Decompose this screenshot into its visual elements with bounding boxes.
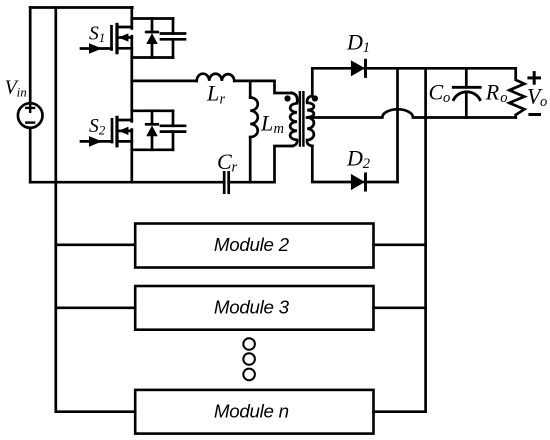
svg-text:Module n: Module n: [214, 401, 289, 422]
svg-text:S: S: [89, 116, 99, 137]
wire half-bridge bus low segment: [130, 130, 133, 183]
wire module3 right lead: [374, 306, 426, 309]
svg-text:o: o: [443, 90, 450, 106]
wire center tap with hop: [307, 109, 516, 117]
svg-text:L: L: [260, 111, 273, 136]
wire top rail: [30, 6, 132, 9]
transformer secondary winding: [307, 96, 314, 146]
S2 snubber box: [132, 111, 185, 150]
wire half-bridge bus mid segment: [130, 36, 133, 121]
wire secondary top lead: [312, 68, 351, 96]
transistor Q1 (switch S1): [81, 24, 132, 53]
svg-text:r: r: [220, 91, 226, 107]
wire module3 left lead: [56, 306, 135, 309]
svg-text:2: 2: [363, 156, 370, 172]
svg-text:in: in: [17, 85, 27, 100]
capacitor Co: [453, 68, 480, 117]
svg-text:r: r: [232, 160, 238, 176]
wire half-bridge bus drain segment: [130, 8, 133, 29]
svg-text:D: D: [346, 29, 363, 54]
module n box: [135, 390, 373, 434]
wire secondary bottom lead: [312, 146, 351, 182]
wire Vin top lead: [29, 8, 32, 104]
svg-text:D: D: [346, 145, 363, 170]
inductor Lm: [250, 81, 258, 182]
wire output top rail: [365, 67, 516, 70]
capacitor C-S2: [172, 111, 175, 126]
inductor Lr: [197, 74, 235, 81]
capacitor C-S1: [172, 19, 175, 34]
capacitor Cr: [223, 172, 226, 192]
transistor Q2 (switch S2): [81, 117, 132, 146]
module 3 box: [135, 286, 373, 330]
svg-text:R: R: [485, 80, 500, 105]
svg-text:C: C: [217, 149, 232, 174]
output plus sign: [529, 73, 540, 84]
wire module-n right lead: [374, 410, 426, 413]
svg-text:o: o: [500, 90, 507, 106]
svg-text:Module 3: Module 3: [214, 297, 290, 318]
diode D2: [351, 174, 365, 190]
wire left module bus: [54, 8, 57, 412]
svg-text:o: o: [540, 94, 547, 110]
source Vin: [18, 103, 43, 128]
module 2 box: [135, 224, 373, 268]
svg-text:1: 1: [363, 40, 370, 56]
transformer primary winding: [290, 93, 297, 146]
svg-text:1: 1: [99, 30, 106, 45]
wire right module bus: [424, 68, 427, 411]
wire Vin bottom lead: [29, 128, 32, 182]
svg-text:C: C: [429, 80, 444, 105]
svg-text:Module 2: Module 2: [214, 234, 290, 255]
wire module2 right lead: [374, 243, 426, 246]
wire D2 to cathode bus: [365, 181, 398, 184]
wire module-n left lead: [56, 410, 135, 413]
diode body D-S2: [151, 111, 154, 125]
wire module2 left lead: [56, 243, 135, 246]
wire midpoint to Lr: [132, 80, 197, 83]
node secondary dot: [312, 95, 318, 101]
S1 snubber box: [132, 19, 185, 58]
svg-text:S: S: [89, 24, 99, 45]
svg-text:L: L: [206, 81, 219, 106]
diode body D-S1: [151, 19, 154, 33]
wire Lr to primary: [234, 81, 292, 93]
diode D1: [351, 60, 365, 76]
transformer core: [300, 92, 304, 145]
wire rectifier cathode bus: [396, 68, 399, 182]
wire bottom rail right: [229, 146, 292, 182]
wire bottom rail left: [30, 181, 224, 184]
node primary dot: [284, 95, 290, 101]
ellipsis dots: [243, 338, 255, 380]
svg-text:m: m: [274, 121, 284, 137]
output minus sign: [530, 113, 540, 116]
svg-text:2: 2: [99, 122, 106, 137]
resistor Ro: [509, 68, 524, 117]
